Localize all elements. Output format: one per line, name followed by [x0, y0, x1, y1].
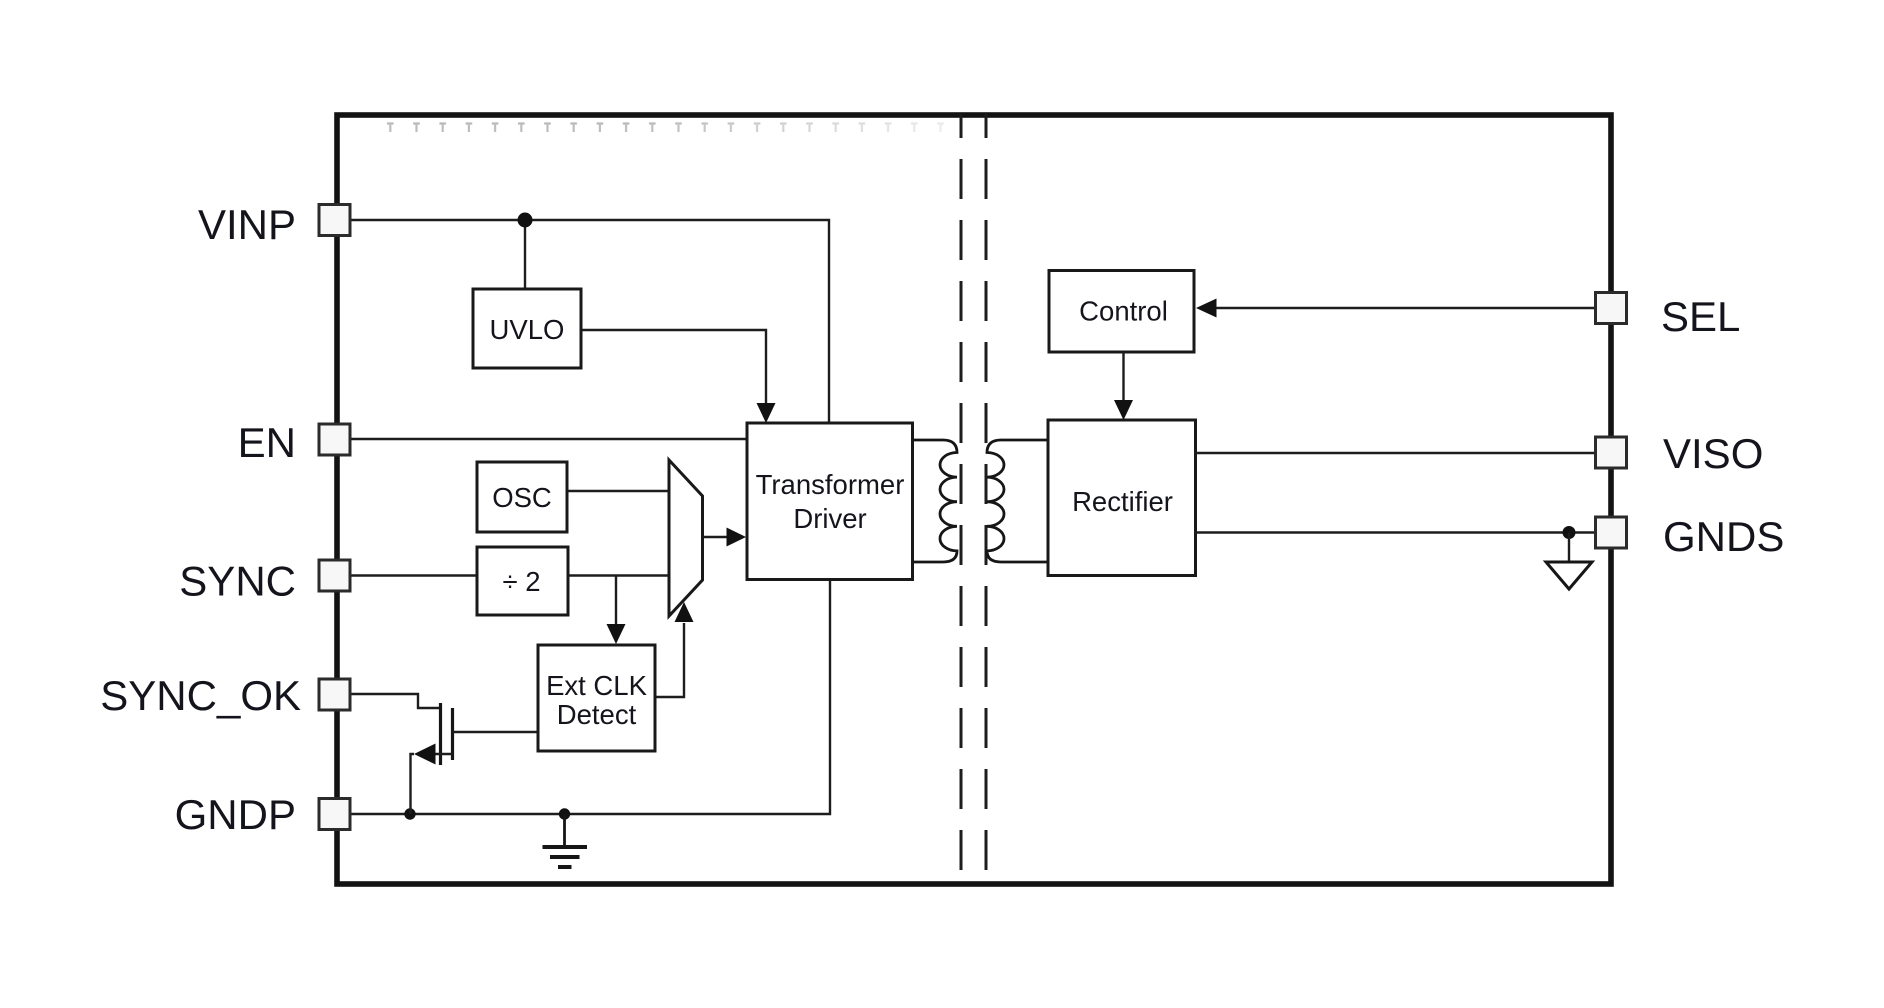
- ground GNDS (triangle symbol): [1546, 533, 1592, 590]
- svg-text:VISO: VISO: [1663, 430, 1763, 477]
- svg-text:SYNC: SYNC: [179, 558, 296, 605]
- wire UVLO output to transformer driver (arrow): [581, 330, 776, 423]
- wire EN to transformer driver: [350, 438, 747, 440]
- wire SYNC to divide-by-2: [350, 574, 477, 576]
- wire divide-by-2 output branch to Ext CLK Detect (arrow): [607, 576, 626, 645]
- svg-text:SYNC_OK: SYNC_OK: [100, 672, 301, 719]
- IC boundary box: [337, 115, 1611, 884]
- wire Rectifier to VISO: [1196, 452, 1597, 454]
- block Transformer Driver U1: [747, 423, 913, 580]
- pin SYNC_OK: [319, 679, 350, 710]
- wire VINP to transformer driver: [350, 220, 829, 423]
- svg-text:SEL: SEL: [1661, 293, 1740, 340]
- junction ground symbol on GNDP rail: [559, 808, 570, 819]
- svg-text:GNDP: GNDP: [175, 791, 296, 838]
- pin VISO: [1596, 437, 1627, 468]
- block OSC: [477, 462, 567, 532]
- wire OSC output to mux: [568, 490, 670, 492]
- svg-text:GNDS: GNDS: [1663, 513, 1784, 560]
- svg-text:UVLO: UVLO: [490, 314, 565, 345]
- svg-text:VINP: VINP: [198, 201, 296, 248]
- wire SEL to Control (arrow): [1196, 299, 1596, 318]
- svg-text:÷ 2: ÷ 2: [502, 566, 540, 597]
- transistor Q1 (MOSFET, SYNC_OK pulldown): [411, 703, 539, 814]
- wire Rectifier to GNDS: [1196, 531, 1599, 533]
- ground GNDP (earth symbol): [543, 814, 588, 867]
- pin VINP: [319, 205, 350, 236]
- wire SYNC_OK to MOSFET gate: [350, 694, 439, 708]
- junction GNDS ground node: [1563, 526, 1576, 539]
- block Rectifier: [1048, 420, 1196, 576]
- junction MOSFET source on GNDP rail: [404, 808, 415, 819]
- wire GNDP rail to transformer driver bottom: [350, 580, 830, 814]
- isolation barrier dashed line (left): [960, 114, 963, 883]
- svg-text:Transformer: Transformer: [756, 469, 905, 500]
- wire divide-by-2 output to mux: [568, 574, 669, 576]
- pin GNDP: [319, 799, 350, 830]
- pin SYNC: [319, 560, 350, 591]
- wire VINP branch to UVLO: [524, 220, 526, 289]
- wire Ext CLK Detect output to mux (arrow): [655, 602, 694, 697]
- wire mux output to transformer driver (arrow): [703, 528, 747, 547]
- block Control: [1049, 271, 1194, 353]
- transformer T1 primary winding: [913, 440, 958, 562]
- pin SEL: [1596, 293, 1627, 324]
- svg-text:EN: EN: [238, 419, 296, 466]
- svg-text:Detect: Detect: [557, 699, 637, 730]
- svg-text:Control: Control: [1079, 296, 1168, 327]
- isolation barrier dashed line (right): [985, 114, 988, 883]
- transformer T1 secondary winding: [987, 440, 1048, 562]
- block UVLO: [473, 289, 581, 368]
- pin EN: [319, 424, 350, 455]
- svg-text:Rectifier: Rectifier: [1072, 486, 1173, 517]
- block Ext CLK Detect: [538, 645, 655, 751]
- pin GNDS: [1596, 517, 1627, 548]
- mux clock select: [669, 460, 703, 616]
- wire Control to Rectifier (arrow): [1114, 352, 1133, 420]
- svg-text:OSC: OSC: [492, 482, 552, 513]
- svg-text:Ext CLK: Ext CLK: [546, 670, 648, 701]
- junction VINP/UVLO node: [518, 213, 533, 228]
- block divide-by-2: [477, 547, 568, 615]
- svg-text:Driver: Driver: [793, 503, 866, 534]
